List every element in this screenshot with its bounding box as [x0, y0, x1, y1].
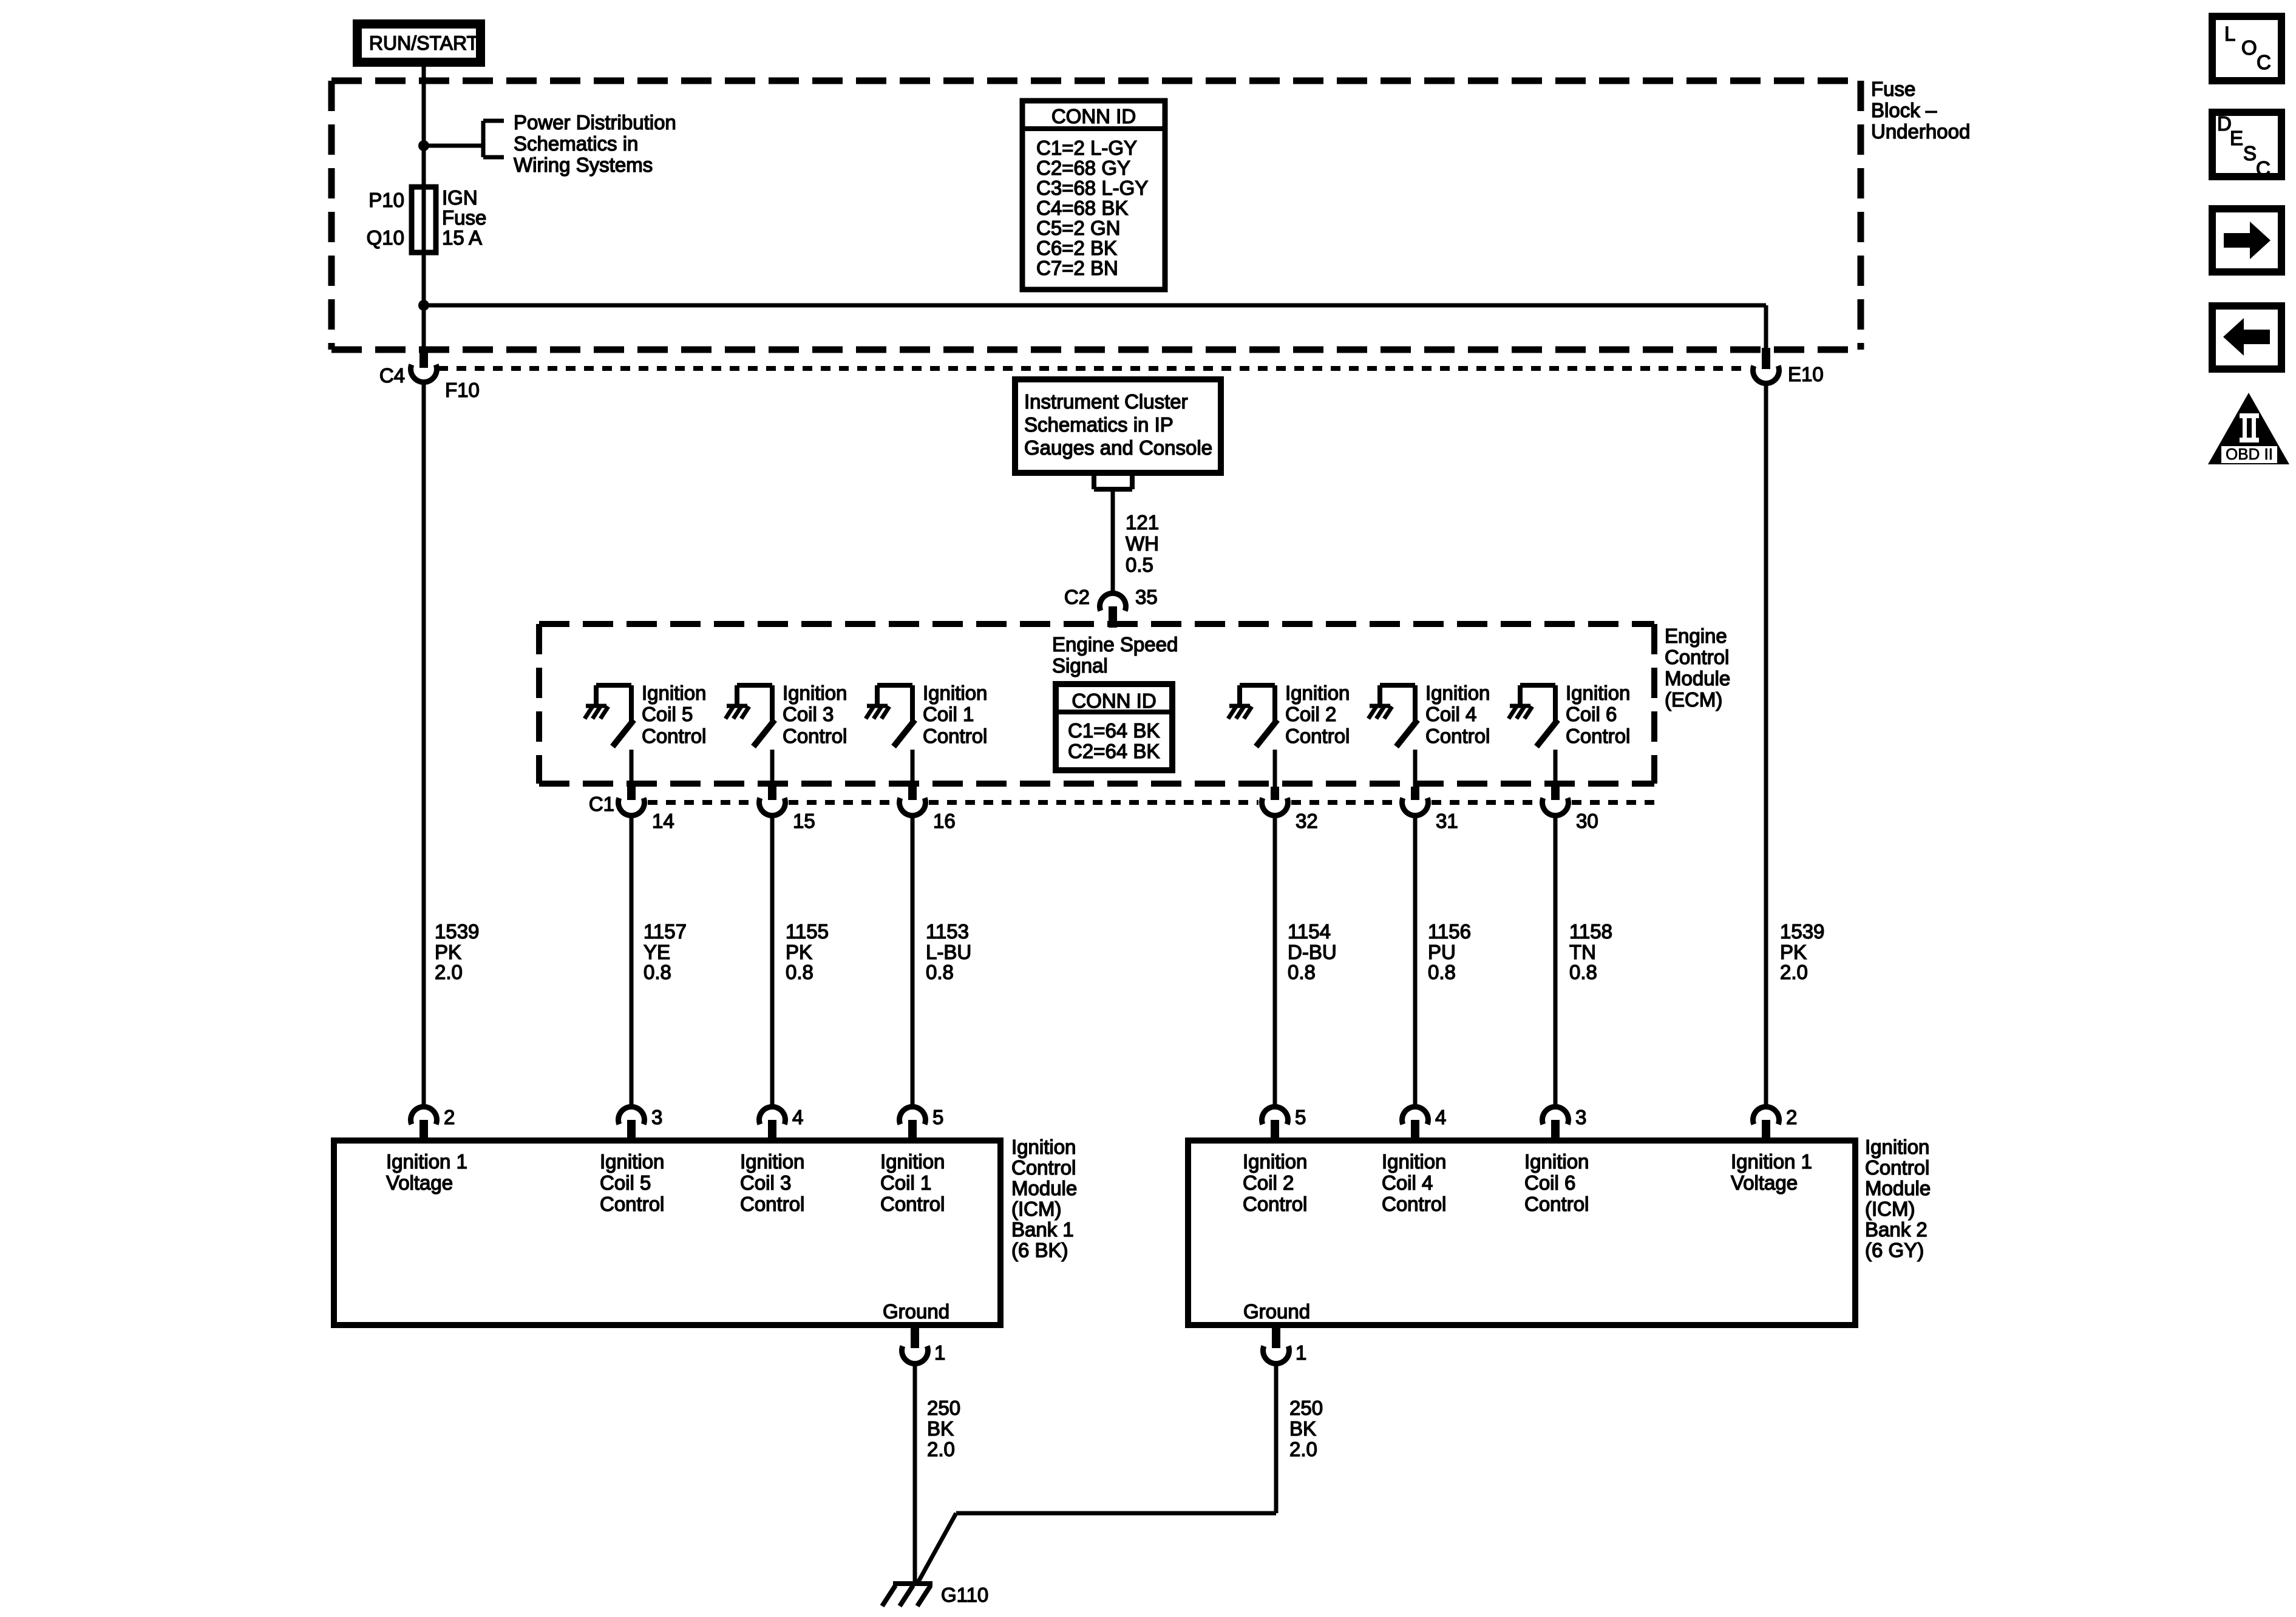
wire: ignition coil 3 control to ICM: [770, 802, 775, 1105]
svg-text:Control: Control: [1382, 1193, 1446, 1215]
svg-text:(ICM): (ICM): [1011, 1198, 1061, 1220]
svg-text:Ignition: Ignition: [1524, 1150, 1589, 1173]
svg-text:1539: 1539: [435, 920, 479, 943]
ground (internal): [727, 704, 747, 708]
ECM driver (transistor) for ignition coil 1 control: [877, 683, 912, 688]
svg-text:Ignition: Ignition: [880, 1150, 945, 1173]
svg-text:(6 BK): (6 BK): [1011, 1239, 1068, 1261]
svg-text:Coil 5: Coil 5: [600, 1171, 651, 1194]
svg-text:Ignition: Ignition: [1382, 1150, 1446, 1173]
icon back-arrow box: [2212, 306, 2281, 369]
svg-text:0.8: 0.8: [1569, 961, 1597, 983]
svg-text:Coil 6: Coil 6: [1566, 703, 1617, 725]
svg-text:G110: G110: [941, 1584, 988, 1606]
svg-text:1156: 1156: [1428, 920, 1471, 943]
svg-text:2.0: 2.0: [1289, 1438, 1317, 1460]
svg-text:0.8: 0.8: [1428, 961, 1456, 983]
wire: ignition coil 4 control to ICM: [1413, 802, 1418, 1105]
svg-text:Control: Control: [1011, 1156, 1076, 1179]
wire: 250 BK 2.0 ICM2 ground: [1274, 1351, 1279, 1513]
svg-text:(ICM): (ICM): [1865, 1198, 1915, 1220]
svg-text:0.8: 0.8: [1288, 961, 1316, 983]
svg-text:Ignition: Ignition: [1566, 682, 1630, 704]
svg-text:Ignition: Ignition: [1011, 1136, 1076, 1158]
connector pin 4 at ICM: [1402, 1107, 1428, 1124]
svg-text:Control: Control: [1243, 1193, 1307, 1215]
wire: ignition coil 6 control to ICM: [1554, 802, 1558, 1105]
svg-text:(6 GY): (6 GY): [1865, 1239, 1924, 1261]
svg-text:250: 250: [1289, 1397, 1323, 1419]
svg-text:IGN: IGN: [442, 186, 478, 209]
svg-text:Bank 1: Bank 1: [1011, 1218, 1074, 1241]
ground (internal): [586, 704, 606, 708]
svg-text:1157: 1157: [644, 920, 687, 943]
svg-text:2: 2: [444, 1106, 455, 1128]
svg-text:Control: Control: [1524, 1193, 1589, 1215]
svg-text:Control: Control: [600, 1193, 664, 1215]
svg-text:2: 2: [1786, 1106, 1797, 1128]
svg-text:WH: WH: [1126, 532, 1159, 555]
svg-text:15: 15: [793, 810, 815, 832]
svg-text:30: 30: [1576, 810, 1598, 832]
svg-text:14: 14: [652, 810, 674, 832]
wire: right Ignition 1 Voltage circuit to ICM Bank 2: [1764, 305, 1768, 1105]
icon forward-arrow box: [2212, 209, 2281, 272]
svg-text:PK: PK: [435, 941, 461, 963]
icon DESC box: [2212, 112, 2281, 177]
wire: 250 BK 2.0 ICM1 ground: [913, 1351, 917, 1584]
wire: diagonal to G110: [917, 1513, 956, 1584]
svg-text:Coil 6: Coil 6: [1524, 1171, 1575, 1194]
ground (internal): [1370, 704, 1390, 708]
connector pin 3 at ICM: [618, 1107, 644, 1124]
svg-text:1158: 1158: [1569, 920, 1612, 943]
wire: ignition coil 2 control to ICM: [1273, 802, 1277, 1105]
svg-text:3: 3: [1575, 1106, 1586, 1128]
svg-text:0.8: 0.8: [786, 961, 813, 983]
svg-text:Schematics in: Schematics in: [514, 132, 638, 155]
ECM driver (transistor) for ignition coil 2 control: [1240, 683, 1275, 688]
svg-text:121: 121: [1126, 511, 1159, 534]
svg-text:Control: Control: [783, 725, 847, 747]
svg-text:Q10: Q10: [367, 226, 404, 249]
svg-text:Ground: Ground: [883, 1300, 949, 1323]
connector C1 pin 16 at ECM: [900, 798, 926, 816]
svg-text:PU: PU: [1428, 941, 1456, 963]
svg-text:P10: P10: [369, 189, 404, 211]
svg-text:L-BU: L-BU: [926, 941, 971, 963]
svg-text:0.8: 0.8: [644, 961, 671, 983]
svg-text:Coil 4: Coil 4: [1382, 1171, 1433, 1194]
svg-text:D-BU: D-BU: [1288, 941, 1337, 963]
svg-text:0.5: 0.5: [1126, 554, 1153, 576]
svg-text:1: 1: [934, 1341, 945, 1364]
svg-text:Power Distribution: Power Distribution: [514, 111, 676, 134]
connector C2 pin 35 at ECM: [1099, 593, 1126, 611]
connector C1 pin 30 at ECM: [1543, 798, 1569, 816]
connector E10 pin (fuse block output): [1753, 366, 1779, 384]
svg-text:Fuse: Fuse: [1871, 78, 1915, 100]
ground (internal): [1510, 704, 1530, 708]
Fuse Block - Underhood dashed outline: [331, 78, 1861, 84]
svg-text:Ignition: Ignition: [1243, 1150, 1307, 1173]
svg-text:C5=2 GN: C5=2 GN: [1036, 217, 1120, 239]
svg-text:2.0: 2.0: [1780, 961, 1808, 983]
svg-text:0.8: 0.8: [926, 961, 954, 983]
svg-text:Control: Control: [1566, 725, 1630, 747]
CONN ID table (ECM): [1056, 684, 1172, 770]
connector C1 pin 32 at ECM: [1262, 798, 1288, 816]
svg-text:Ignition: Ignition: [1865, 1136, 1929, 1158]
svg-text:Control: Control: [923, 725, 987, 747]
svg-text:C7=2 BN: C7=2 BN: [1036, 257, 1118, 279]
svg-text:1154: 1154: [1288, 920, 1331, 943]
svg-text:Module: Module: [1665, 667, 1730, 690]
svg-text:35: 35: [1135, 586, 1158, 608]
svg-text:32: 32: [1296, 810, 1318, 832]
svg-text:C1=64 BK: C1=64 BK: [1068, 719, 1160, 742]
ECM driver (transistor) for ignition coil 5 control: [596, 683, 631, 688]
ground (internal): [1229, 704, 1250, 708]
svg-text:Control: Control: [740, 1193, 804, 1215]
svg-text:E: E: [2230, 127, 2243, 149]
module Ignition Control Module (ICM) Bank 1: [334, 1141, 1000, 1325]
ground (internal): [867, 704, 888, 708]
junction above fuse: [418, 140, 429, 151]
bracket under Instrument Cluster box: [1092, 473, 1096, 489]
svg-text:Module: Module: [1011, 1177, 1077, 1199]
svg-text:2.0: 2.0: [927, 1438, 955, 1460]
svg-text:Block –: Block –: [1871, 99, 1937, 121]
svg-text:C: C: [2256, 157, 2271, 180]
svg-text:F10: F10: [445, 379, 480, 401]
wire: 121 WH 0.5 engine speed signal: [1111, 489, 1115, 606]
svg-text:Ignition: Ignition: [783, 682, 847, 704]
svg-text:Ground: Ground: [1243, 1300, 1310, 1323]
svg-text:1539: 1539: [1780, 920, 1824, 943]
svg-text:Wiring Systems: Wiring Systems: [514, 154, 653, 176]
svg-text:C1: C1: [589, 793, 614, 815]
svg-text:Coil 2: Coil 2: [1285, 703, 1336, 725]
svg-text:Coil 3: Coil 3: [783, 703, 834, 725]
svg-text:S: S: [2243, 142, 2257, 164]
svg-text:Instrument Cluster: Instrument Cluster: [1024, 390, 1188, 413]
svg-text:Control: Control: [1865, 1156, 1929, 1179]
svg-text:1153: 1153: [926, 920, 969, 943]
svg-text:Coil 1: Coil 1: [923, 703, 974, 725]
svg-text:16: 16: [933, 810, 956, 832]
svg-text:Schematics in IP: Schematics in IP: [1024, 413, 1173, 436]
svg-text:Gauges and Console: Gauges and Console: [1024, 436, 1212, 459]
svg-text:CONN ID: CONN ID: [1051, 105, 1136, 127]
dotted connector line C1 (ECM harness): [648, 800, 756, 805]
connector pin 3 at ICM: [1543, 1107, 1569, 1124]
svg-text:Module: Module: [1865, 1177, 1931, 1199]
svg-text:Engine Speed: Engine Speed: [1052, 633, 1178, 656]
svg-text:Coil 5: Coil 5: [642, 703, 693, 725]
Engine Control Module dashed outline: [539, 621, 1654, 627]
svg-text:Underhood: Underhood: [1871, 120, 1970, 143]
svg-text:C2: C2: [1064, 586, 1090, 608]
svg-text:Ignition: Ignition: [740, 1150, 804, 1173]
ECM driver (transistor) for ignition coil 3 control: [737, 683, 772, 688]
svg-text:2.0: 2.0: [435, 961, 463, 983]
svg-text:Voltage: Voltage: [386, 1171, 453, 1194]
svg-text:Ignition: Ignition: [600, 1150, 664, 1173]
svg-text:Signal: Signal: [1052, 654, 1108, 677]
connector pin 1 (ground) below ICM at x=1507: [902, 1346, 928, 1364]
svg-text:C1=2 L-GY: C1=2 L-GY: [1036, 137, 1137, 159]
CONN ID table (fuse block): [1022, 101, 1165, 290]
wire: tap to Power Distribution reference: [424, 144, 483, 148]
icon LOC box: [2212, 16, 2281, 81]
svg-text:Engine: Engine: [1665, 625, 1727, 647]
svg-text:1: 1: [1296, 1341, 1306, 1364]
connector C1 pin 15 at ECM: [759, 798, 785, 816]
connector pin 5 at ICM: [900, 1107, 926, 1124]
left arrow glyph: [2244, 330, 2270, 344]
svg-text:Control: Control: [1665, 646, 1729, 668]
svg-text:1155: 1155: [786, 920, 829, 943]
connector pin 2 at ICM: [411, 1107, 437, 1124]
svg-text:YE: YE: [644, 941, 670, 963]
svg-text:RUN/START: RUN/START: [369, 32, 478, 54]
svg-text:(ECM): (ECM): [1665, 688, 1722, 711]
node RUN/START (ignition feed): [358, 24, 481, 63]
svg-text:C3=68 L-GY: C3=68 L-GY: [1036, 177, 1148, 199]
connector pin 5 at ICM: [1262, 1107, 1288, 1124]
ground G110: [893, 1581, 932, 1586]
connector C1 pin 14 at ECM: [618, 798, 644, 816]
svg-text:Control: Control: [642, 725, 706, 747]
ECM driver (transistor) for ignition coil 4 control: [1380, 683, 1415, 688]
svg-text:PK: PK: [1780, 941, 1807, 963]
wire: ignition coil 1 control to ICM: [911, 802, 915, 1105]
svg-text:Coil 4: Coil 4: [1425, 703, 1476, 725]
fuse IGN Fuse 15 A (P10/Q10): [412, 187, 436, 253]
svg-text:BK: BK: [927, 1417, 954, 1440]
svg-text:Coil 3: Coil 3: [740, 1171, 791, 1194]
svg-text:250: 250: [927, 1397, 960, 1419]
svg-text:C4=68 BK: C4=68 BK: [1036, 197, 1128, 219]
svg-text:15 A: 15 A: [442, 226, 482, 249]
svg-text:5: 5: [1295, 1106, 1306, 1128]
svg-text:4: 4: [1435, 1106, 1446, 1128]
svg-text:Fuse: Fuse: [442, 206, 486, 229]
svg-text:CONN ID: CONN ID: [1072, 690, 1156, 712]
svg-text:5: 5: [932, 1106, 943, 1128]
svg-text:Control: Control: [880, 1193, 945, 1215]
svg-text:Control: Control: [1425, 725, 1490, 747]
svg-text:C2=64 BK: C2=64 BK: [1068, 740, 1160, 762]
svg-text:C4: C4: [379, 364, 405, 387]
wire: ignition coil 5 control to ICM: [630, 802, 634, 1105]
wire: RUN/START feed, left Ignition 1 Voltage circuit: [422, 67, 426, 1105]
svg-text:Control: Control: [1285, 725, 1350, 747]
svg-text:C6=2 BK: C6=2 BK: [1036, 237, 1117, 259]
node Instrument Cluster reference box: [1015, 379, 1221, 473]
svg-text:PK: PK: [786, 941, 812, 963]
svg-text:TN: TN: [1569, 941, 1596, 963]
svg-text:31: 31: [1436, 810, 1458, 832]
icon OBD II triangle: [2208, 393, 2289, 464]
svg-text:Ignition: Ignition: [642, 682, 706, 704]
svg-text:Voltage: Voltage: [1731, 1171, 1798, 1194]
connector C1 pin 31 at ECM: [1402, 798, 1428, 816]
svg-text:Coil 1: Coil 1: [880, 1171, 931, 1194]
connector C4 pin (fuse block output): [411, 365, 437, 382]
svg-text:C2=68 GY: C2=68 GY: [1036, 157, 1130, 179]
bracket to Power Distribution note: [481, 121, 486, 157]
svg-text:L: L: [2224, 22, 2235, 45]
connector pin 2 at ICM: [1753, 1107, 1779, 1124]
ECM driver (transistor) for ignition coil 6 control: [1520, 683, 1555, 688]
module Ignition Control Module (ICM) Bank 2: [1188, 1141, 1855, 1325]
svg-text:4: 4: [792, 1106, 803, 1128]
svg-text:Ignition: Ignition: [1285, 682, 1350, 704]
wire: ICM2 ground horizontal run: [956, 1511, 1276, 1516]
svg-text:BK: BK: [1289, 1417, 1316, 1440]
connector pin 4 at ICM: [759, 1107, 785, 1124]
svg-text:O: O: [2241, 36, 2257, 59]
svg-text:Coil 2: Coil 2: [1243, 1171, 1294, 1194]
svg-text:Ignition 1: Ignition 1: [386, 1150, 467, 1173]
dotted connector line C4...E10: [438, 366, 1750, 371]
svg-text:Bank 2: Bank 2: [1865, 1218, 1927, 1241]
svg-text:Ignition: Ignition: [923, 682, 987, 704]
wire: fuse output bus to E10: [424, 303, 1766, 308]
right arrow glyph: [2224, 233, 2250, 248]
svg-text:Ignition 1: Ignition 1: [1731, 1150, 1812, 1173]
svg-text:E10: E10: [1788, 363, 1824, 385]
svg-text:Ignition: Ignition: [1425, 682, 1490, 704]
junction below fuse: [418, 300, 429, 311]
connector pin 1 (ground) below ICM at x=2102: [1263, 1346, 1289, 1364]
svg-text:OBD II: OBD II: [2226, 445, 2273, 463]
svg-text:C: C: [2257, 51, 2271, 73]
svg-text:3: 3: [651, 1106, 662, 1128]
